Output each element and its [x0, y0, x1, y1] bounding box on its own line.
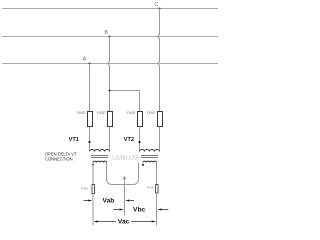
svg-text:FUSE: FUSE: [81, 186, 88, 190]
fuse F3: [138, 112, 143, 127]
phase C bus (top line): [2, 8, 218, 10]
phase A bus (bottom line): [2, 63, 218, 65]
svg-text:FUSE: FUSE: [77, 111, 86, 115]
wire fuse F4 to VT2 primary: [159, 127, 161, 152]
node C junction dot: [159, 8, 161, 10]
junction dot on B vertical: [109, 90, 111, 92]
fuse F4: [158, 112, 163, 127]
wire fuse F1 to VT1 primary: [89, 127, 91, 152]
svg-text:VT2: VT2: [124, 137, 134, 143]
VT1 secondary polarity dot: [92, 164, 94, 166]
wire node a extension: [92, 194, 94, 226]
wire VT1 secondary left lead (node a): [92, 163, 94, 185]
svg-text:Vac: Vac: [118, 219, 130, 226]
dimension Vbc left arrow: [113, 209, 120, 211]
svg-text:FUSE: FUSE: [147, 111, 156, 115]
transformer VT1 secondary winding: [93, 161, 107, 162]
wire jumper B to VT2: [110, 91, 140, 112]
dimension Vbc right arrow: [157, 209, 161, 211]
ground arrow at node b: [123, 176, 127, 180]
svg-text:Vbc: Vbc: [133, 207, 145, 214]
svg-text:VT1: VT1: [69, 137, 79, 143]
dimension Vab right arrow: [125, 200, 129, 202]
transformer VT1 primary winding: [90, 150, 110, 152]
VT2 secondary polarity dot: [142, 164, 144, 166]
fuse F1: [88, 112, 93, 127]
svg-text:C: C: [154, 2, 158, 8]
transformer VT2 secondary winding: [143, 161, 157, 162]
transformer VT1 core: [91, 155, 108, 157]
wire B vertical with hop: [108, 37, 110, 112]
wire C vertical with hops: [158, 9, 160, 112]
svg-text:A: A: [83, 56, 87, 62]
fuse secondary left: [92, 185, 95, 194]
dimension Vac line and arrows: [98, 221, 116, 223]
wire node b stem: [124, 179, 126, 215]
svg-text:B: B: [104, 30, 108, 36]
node A junction dot: [89, 63, 91, 65]
wire node c extension: [156, 193, 158, 225]
svg-text:CONNECTION: CONNECTION: [45, 157, 73, 162]
transformer VT2 core: [141, 155, 158, 157]
transformer VT2 primary winding: [140, 150, 160, 152]
wire fuse F2 to VT1 primary: [109, 127, 111, 152]
VT1 primary polarity dot: [88, 141, 90, 143]
svg-text:FUSE: FUSE: [127, 111, 136, 115]
wire A vertical: [89, 64, 91, 112]
fuse secondary right: [156, 185, 159, 194]
svg-text:FUSE: FUSE: [147, 186, 154, 190]
wire fuse F3 to VT2 primary: [139, 127, 141, 152]
svg-text:FUSE: FUSE: [97, 111, 106, 115]
phase B bus (middle line): [2, 36, 218, 38]
dimension Vab left arrow: [84, 200, 89, 202]
svg-text:13200:120v: 13200:120v: [112, 156, 140, 162]
wire VT2 secondary right lead (node c): [156, 163, 158, 185]
fuse F2: [108, 112, 113, 127]
svg-text:Vab: Vab: [103, 198, 115, 205]
node B junction dot: [109, 36, 111, 38]
wire VT1 secondary right lead to common bus: [107, 163, 139, 185]
VT2 primary polarity dot: [138, 141, 140, 143]
